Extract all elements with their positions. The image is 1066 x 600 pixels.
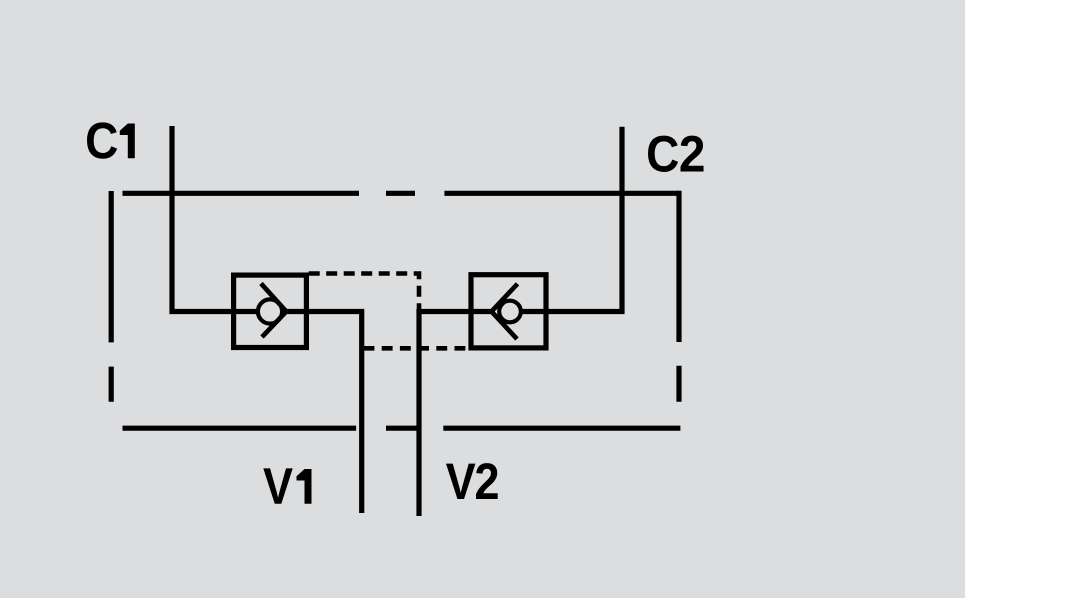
check valve CV2 seat	[492, 284, 518, 339]
wire CV1 outlet to port V1	[285, 312, 362, 514]
pilot line (dashed) lower run from V1 wire to check valve CV2	[364, 346, 467, 351]
boundary box right edge (long dash)	[676, 191, 681, 402]
wire port V2 riser to check valve CV2	[419, 312, 492, 517]
check valve CV1 box	[234, 275, 307, 347]
check valve CV1 seat	[261, 284, 286, 338]
port label V1	[263, 468, 311, 503]
port label V2	[446, 463, 498, 499]
port label C2	[648, 136, 704, 172]
wire C1 port line (vertical drop and horizontal run to check valve CV1)	[172, 126, 236, 312]
check valve CV1 ball	[258, 299, 282, 323]
check valve CV2 ball	[499, 301, 521, 323]
wire CV2 outlet to port C2 (horizontal run and vertical riser)	[522, 127, 623, 312]
boundary box bottom edge (long dash)	[123, 426, 681, 431]
pilot line (dashed) upper run from CV1 to junction above V2	[309, 274, 419, 310]
boundary box left edge (long dash)	[109, 191, 114, 402]
check valve CV2 box	[471, 275, 546, 348]
port label C1	[87, 122, 135, 158]
boundary box top edge (long dash)	[123, 191, 680, 196]
check valve CV1 inlet stub	[231, 309, 257, 314]
